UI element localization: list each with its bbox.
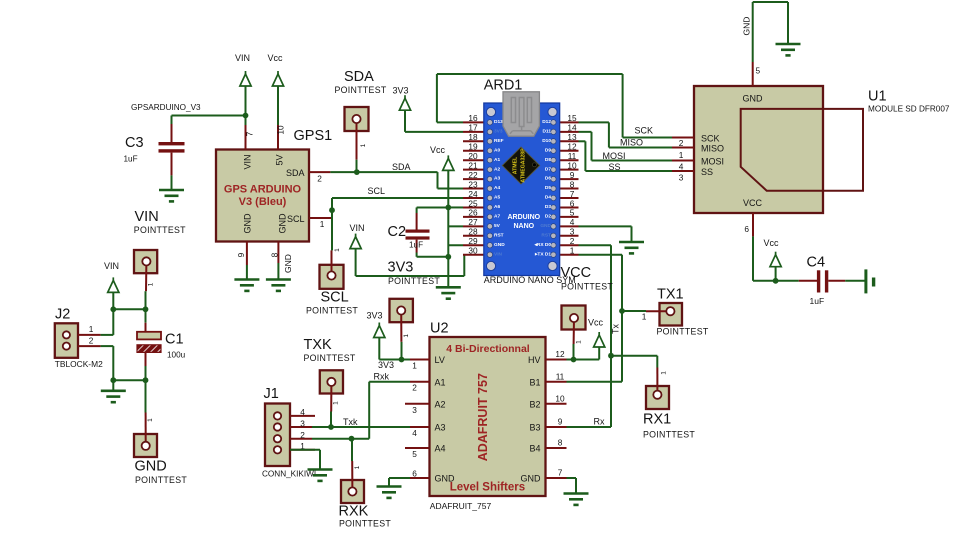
ground below C3 (159, 190, 184, 201)
ARD1 pin 12 stub (559, 150, 579, 152)
ground below GPS1 pin 8 (266, 280, 291, 291)
ARD1 pin 20 stub (463, 159, 485, 161)
ground below Vcc bus (436, 287, 461, 298)
svg-text:A1: A1 (435, 377, 446, 387)
svg-text:GND: GND (277, 213, 287, 234)
svg-text:GND: GND (135, 459, 167, 475)
svg-text:POINTTEST: POINTTEST (657, 327, 709, 337)
ARD1 pin 22 stub (463, 178, 485, 180)
svg-text:ARDUINO: ARDUINO (507, 214, 540, 221)
wire SDA pointtest to SDA net (356, 160, 358, 172)
svg-text:3V3: 3V3 (378, 360, 394, 370)
wire SCK vertical right (622, 74, 624, 138)
ground J1 pin 1 (308, 470, 333, 481)
svg-text:GPS1: GPS1 (294, 128, 333, 144)
wire net SDA to ARD1 pin 23 (438, 188, 464, 190)
ARD1 pin 10 stub (559, 169, 579, 171)
svg-text:1: 1 (320, 219, 325, 229)
svg-text:7: 7 (558, 468, 563, 478)
wire net SDA vertical (437, 172, 439, 188)
pointtest RXK (341, 480, 364, 503)
svg-text:POINTTEST: POINTTEST (134, 225, 186, 235)
ground J2 (101, 391, 126, 402)
U2 pin 6 stub (410, 477, 430, 479)
wire GPS1 pin9 to ground (246, 265, 248, 280)
U2 pin 8 stub (546, 447, 567, 449)
svg-text:VCC: VCC (561, 265, 592, 281)
junction VCC / HV (571, 357, 577, 363)
svg-text:4: 4 (570, 217, 575, 227)
pointtest VCC (562, 306, 586, 330)
J1 pin 4 (290, 415, 315, 417)
svg-text:11: 11 (568, 151, 577, 161)
wire net SCL horizontal (332, 197, 463, 199)
svg-text:◂RX D0: ◂RX D0 (533, 242, 551, 248)
svg-text:VIN: VIN (135, 209, 159, 225)
svg-text:U2: U2 (430, 321, 449, 337)
U1 pin MISO stub (672, 147, 694, 149)
svg-text:10: 10 (567, 160, 577, 170)
ARD1 pin 28 stub (463, 235, 485, 237)
U2 pin 2 stub (410, 381, 430, 383)
pointtest VIN (134, 250, 157, 273)
ARD1 pin 26 stub (463, 216, 485, 218)
U2 pin 4 stub (410, 426, 430, 428)
svg-text:3: 3 (570, 227, 575, 237)
junction 3V3 / LV (399, 357, 405, 363)
svg-text:4: 4 (412, 428, 417, 438)
svg-text:POINTTEST: POINTTEST (339, 519, 391, 529)
wire VCC to C4 (753, 280, 776, 282)
wire SS vertical (584, 141, 586, 171)
svg-text:MISO: MISO (701, 144, 724, 154)
svg-text:1uF: 1uF (124, 155, 138, 164)
ARD1 pin 17 stub (463, 131, 485, 133)
capacitor C4 (776, 280, 799, 282)
svg-text:Rxk: Rxk (374, 371, 390, 381)
svg-text:SCK: SCK (635, 126, 654, 136)
svg-text:LV: LV (435, 355, 445, 365)
svg-text:A6: A6 (494, 204, 500, 210)
SD module U1 (694, 86, 823, 213)
wire Rx vertical (610, 245, 612, 427)
svg-text:GPS ARDUINO: GPS ARDUINO (224, 184, 302, 196)
wire HV to Vcc arrow (567, 359, 600, 361)
wire U1 pin6 down (752, 236, 754, 280)
svg-text:ADAFRUIT 757: ADAFRUIT 757 (476, 373, 490, 461)
wire J2 pin2 (101, 345, 114, 347)
GPS1 pin 1 (SCL) (309, 217, 332, 219)
wire ARD1 pin 30 down to VIN net (463, 255, 465, 276)
svg-text:9: 9 (558, 417, 563, 427)
U2 pin 12 stub (546, 359, 567, 361)
U1 pin MOSI stub (672, 160, 694, 162)
svg-text:15: 15 (567, 113, 577, 123)
junction C2 bottom (445, 254, 451, 260)
wire J2 pin1 ext (101, 334, 114, 336)
svg-text:U1: U1 (868, 89, 887, 105)
svg-text:3V3: 3V3 (393, 86, 409, 96)
svg-text:6: 6 (412, 469, 417, 479)
svg-text:1uF: 1uF (810, 296, 825, 306)
wire Rx from ARD1 pin2 (579, 244, 612, 246)
ground bar (alt) right of C4 (864, 269, 867, 293)
svg-text:1: 1 (89, 324, 94, 334)
U2 pin 9 stub (546, 426, 567, 428)
svg-text:8: 8 (558, 438, 563, 448)
svg-text:GND: GND (283, 254, 293, 273)
svg-text:POINTTEST: POINTTEST (388, 276, 440, 286)
U2 pin 3 stub (405, 403, 430, 405)
svg-text:A5: A5 (494, 195, 500, 201)
svg-text:SDA: SDA (392, 162, 411, 172)
svg-text:A7: A7 (494, 214, 500, 220)
svg-text:14: 14 (567, 123, 577, 133)
wire U2 pin7 ground vertical (575, 478, 577, 494)
svg-text:30: 30 (468, 246, 478, 256)
ARD1 pin 9 stub (559, 178, 579, 180)
wire GND top vertical (787, 2, 789, 44)
capacitor C3 (171, 116, 173, 125)
wire Rxk to J1 pin2 (352, 438, 370, 440)
junction Txk / TXK (328, 424, 334, 430)
junction GPSARDUINO_V3 / VIN (243, 113, 249, 119)
svg-text:TBLOCK-M2: TBLOCK-M2 (55, 359, 103, 369)
U1 pin SS stub (672, 170, 694, 172)
wire GPS1 pin8 to ground (277, 263, 279, 280)
svg-text:4: 4 (300, 407, 305, 417)
wire 3V3 arrow vertical (404, 110, 406, 132)
ARD1 pin pads (487, 120, 492, 125)
pointtest SCL (320, 265, 344, 289)
wire Vcc arrow stem 2 (775, 267, 777, 281)
svg-text:TXK: TXK (304, 337, 333, 353)
U2 pin 5 stub (405, 447, 430, 449)
svg-text:POINTTEST: POINTTEST (304, 353, 356, 363)
svg-text:VIN: VIN (242, 154, 252, 169)
ARD1 ATMEL ATMEGA328P chip (502, 147, 539, 184)
wire 3V3 pointtest down (401, 342, 403, 360)
wire MISO to U1 (609, 147, 672, 149)
svg-text:SCL: SCL (368, 186, 386, 196)
ARD1 pin 15 stub (559, 121, 579, 123)
svg-text:VIN: VIN (104, 261, 119, 271)
svg-text:D5: D5 (545, 185, 551, 191)
svg-text:4: 4 (679, 162, 684, 172)
wire Vcc arrow to GPS1 pin10 (277, 86, 279, 125)
svg-text:A2: A2 (435, 399, 446, 409)
wire Txk to U2 A3 (331, 426, 410, 428)
svg-text:3V3: 3V3 (388, 260, 414, 276)
wire MISO vertical (608, 122, 610, 147)
GPS1 pin 8 (GND) (277, 242, 279, 264)
ground top right (776, 44, 801, 55)
wire net SDA horizontal (330, 171, 437, 173)
wire SCK to U1 (623, 137, 672, 139)
svg-text:J2: J2 (55, 307, 70, 323)
wire RX1 vertical (656, 356, 658, 368)
wire 3V3 to ARD1 pin 17 (405, 131, 463, 133)
svg-text:12: 12 (567, 142, 577, 152)
svg-text:POINTTEST: POINTTEST (561, 282, 613, 292)
wire J1 pin2 to Rxk (312, 438, 352, 440)
svg-text:D7: D7 (545, 166, 551, 172)
svg-text:POINTTEST: POINTTEST (643, 430, 695, 440)
J2 pin 1 (78, 334, 101, 336)
pointtest 3V3 (390, 299, 413, 322)
svg-text:POINTTEST: POINTTEST (135, 475, 187, 485)
wire net SCL vertical to pointtest (331, 198, 333, 250)
svg-text:Vcc: Vcc (764, 238, 780, 248)
svg-text:Tx: Tx (611, 324, 621, 334)
wire ARD1 pin4 ground vertical (631, 226, 633, 242)
svg-text:POINTTEST: POINTTEST (335, 85, 387, 95)
ARD1 pin 13 stub (559, 140, 579, 142)
svg-text:Vcc: Vcc (430, 145, 446, 155)
svg-text:GND: GND (742, 17, 752, 36)
wire U2 pin7 to ground (567, 477, 577, 479)
wire net GPSARDUINO_V3 (172, 115, 246, 117)
svg-text:3: 3 (412, 405, 417, 415)
junction VIN / C1 (143, 306, 149, 312)
svg-text:9: 9 (570, 170, 575, 180)
svg-text:MOSI: MOSI (701, 157, 724, 167)
GPS1 pin 10 (5V) (277, 125, 279, 150)
svg-text:RX1: RX1 (643, 412, 671, 428)
power arrow VIN (GPS1 pin 7) (240, 71, 251, 86)
pointtest SDA (345, 107, 369, 131)
pointtest TXK (320, 370, 343, 393)
ARD1 mini-USB connector (503, 92, 539, 136)
junction C2 top / ARD1 pin 25 (445, 205, 451, 211)
power arrow Vcc (U2 HV) (594, 332, 605, 347)
wire U1 pin5 up (752, 2, 754, 62)
wire Tx from ARD1 pin1 (579, 254, 623, 256)
ARD1 mounting holes (486, 107, 495, 116)
svg-text:1: 1 (334, 248, 341, 252)
svg-text:13: 13 (567, 132, 577, 142)
svg-text:3V3: 3V3 (367, 311, 383, 321)
svg-text:Rx: Rx (594, 417, 605, 427)
junction SDA net (354, 169, 360, 175)
wire MOSI vertical (591, 132, 593, 161)
ARD1 pin 24 stub (463, 197, 485, 199)
capacitor C1 (electrolytic) (145, 309, 147, 322)
ARD1 pin 4 stub (559, 225, 579, 227)
junction Rx / RX1 (608, 353, 614, 359)
level shifter U2 (430, 337, 546, 496)
wire VIN pointtest down (145, 291, 147, 309)
svg-text:D6: D6 (545, 176, 551, 182)
svg-text:1: 1 (412, 361, 417, 371)
svg-text:Txk: Txk (343, 417, 358, 427)
wire VIN arrow to J2 pin1 (112, 292, 114, 335)
pointtest TX1 (660, 303, 683, 326)
wire J1 pin1 to ground (290, 449, 320, 451)
power arrow Vcc (ARD1) (443, 155, 454, 170)
wire U2 pin6 ground vertical (388, 478, 390, 487)
svg-text:GND: GND (242, 213, 252, 234)
U1 pin SCK stub (672, 137, 694, 139)
svg-text:1: 1 (661, 371, 668, 375)
svg-text:2: 2 (317, 174, 322, 184)
svg-text:B2: B2 (529, 399, 540, 409)
svg-text:2: 2 (679, 138, 684, 148)
svg-text:Vcc: Vcc (268, 53, 284, 63)
svg-text:1: 1 (147, 418, 154, 422)
svg-text:SDA: SDA (344, 69, 374, 85)
ground U2 pin 7 (564, 494, 589, 505)
svg-text:2: 2 (300, 430, 305, 440)
svg-text:▸TX D1: ▸TX D1 (534, 251, 551, 257)
svg-text:7: 7 (570, 189, 575, 199)
ground below GPS1 pin 9 (234, 280, 259, 291)
wire Rx to RX1 (611, 355, 657, 357)
svg-text:1uF: 1uF (409, 241, 423, 250)
ARD1 pin 7 stub (559, 197, 579, 199)
svg-text:NANO: NANO (513, 223, 534, 230)
wire TXK pointtest down (330, 412, 332, 428)
svg-text:5V: 5V (274, 154, 284, 165)
GPS1 pin 7 (VIN) (245, 125, 247, 150)
svg-text:Level Shifters: Level Shifters (450, 482, 525, 494)
svg-text:A3: A3 (494, 176, 500, 182)
svg-text:3: 3 (679, 173, 684, 183)
svg-text:1: 1 (354, 465, 361, 469)
svg-text:ATMEL: ATMEL (513, 156, 519, 174)
svg-text:B4: B4 (529, 444, 540, 454)
svg-text:D4: D4 (545, 195, 551, 201)
ground U2 pin 6 (377, 487, 402, 498)
svg-text:B1: B1 (529, 377, 540, 387)
svg-text:SCK: SCK (701, 134, 720, 144)
svg-text:C2: C2 (388, 224, 407, 240)
svg-text:10: 10 (276, 125, 286, 135)
svg-text:MODULE SD DFR007: MODULE SD DFR007 (868, 105, 950, 114)
wire ARD1 pin4 to ground (579, 225, 632, 227)
svg-text:5: 5 (756, 66, 761, 76)
svg-text:7: 7 (245, 131, 255, 136)
junction C1 bottom (143, 377, 149, 383)
U2 pin 10 stub (546, 403, 567, 405)
svg-text:VCC: VCC (743, 198, 763, 208)
svg-text:SS: SS (701, 167, 713, 177)
junction Rxk / RXK (349, 436, 355, 442)
wire VIN to C1 top (113, 308, 145, 310)
wire C4 to ground bar (845, 280, 865, 282)
svg-text:12: 12 (555, 349, 565, 359)
ARD1 pin 30 stub (463, 254, 485, 256)
svg-text:10: 10 (555, 394, 565, 404)
wire SCK from ARD1 pin16 (437, 121, 463, 123)
svg-text:GND: GND (494, 242, 505, 248)
svg-text:TX1: TX1 (657, 286, 684, 302)
junction GND net left (110, 377, 116, 383)
ARD1 pin 8 stub (559, 188, 579, 190)
junction Vcc / C4 (773, 278, 779, 284)
svg-text:Vcc: Vcc (588, 318, 604, 328)
J1 pin 3 (290, 426, 312, 428)
wire SCK vertical left (436, 74, 438, 122)
svg-text:HV: HV (528, 355, 541, 365)
U2 pin 11 stub (546, 381, 567, 383)
ARD1 board body (484, 103, 560, 276)
GPS module GPS1 (216, 150, 309, 242)
wire VIN net horizontal (356, 275, 465, 277)
wire SS to U1 (585, 170, 672, 172)
svg-text:9: 9 (236, 252, 246, 257)
svg-text:5: 5 (570, 208, 575, 218)
ARD1 pin 16 stub (463, 121, 485, 123)
wire VIN arrow to GPS1 pin7 (245, 86, 247, 125)
U1 pin 6 (VCC) (752, 213, 754, 236)
svg-text:VIN: VIN (235, 53, 250, 63)
svg-text:A4: A4 (494, 185, 500, 191)
junction Tx / TX1 (619, 308, 625, 314)
power arrow VIN (J2) (108, 277, 119, 292)
junction SCL net (329, 207, 335, 213)
wire SCK over ARD1 (437, 73, 623, 75)
svg-text:SDA: SDA (286, 168, 305, 178)
svg-text:D3: D3 (545, 204, 551, 210)
svg-text:A0: A0 (494, 147, 500, 153)
wire Tx to U2 B1 (567, 381, 623, 383)
svg-text:3V3: 3V3 (494, 128, 503, 134)
wire 3V3 arrow stem (378, 338, 380, 360)
ARD1 pin 3 stub (559, 235, 579, 237)
ARD1 pin 18 stub (463, 140, 485, 142)
svg-text:8: 8 (570, 179, 575, 189)
svg-text:1: 1 (570, 246, 575, 256)
ARD1 pin 11 stub (559, 159, 579, 161)
wire to GND pointtest (145, 380, 147, 412)
svg-text:6: 6 (744, 224, 749, 234)
svg-text:RST: RST (541, 232, 551, 238)
svg-text:2: 2 (89, 335, 94, 345)
ARD1 pin 5 stub (559, 216, 579, 218)
pointtest RX1 (646, 386, 669, 409)
svg-text:B3: B3 (529, 423, 540, 433)
svg-text:C1: C1 (165, 332, 184, 348)
power arrow VIN (mid) (350, 234, 361, 249)
wire J2 pin2 down to ground (112, 346, 114, 391)
svg-text:D2: D2 (545, 214, 551, 220)
wire MOSI from ARD1 pin14 (579, 131, 592, 133)
svg-text:VIN: VIN (494, 251, 503, 257)
svg-text:VIN: VIN (350, 223, 365, 233)
svg-text:ATMEGA328P: ATMEGA328P (521, 148, 527, 183)
svg-text:1: 1 (333, 401, 340, 405)
wire GND top horizontal (753, 1, 788, 3)
svg-text:3: 3 (300, 418, 305, 428)
wire to ARD1 pin 27 (448, 225, 463, 227)
wire J1 pin3 to Txk (312, 426, 331, 428)
pointtest GND (134, 434, 157, 457)
power arrow Vcc (U1) (770, 252, 781, 267)
svg-text:D12: D12 (542, 119, 551, 125)
svg-text:2: 2 (412, 383, 417, 393)
U1 SD card outline (741, 109, 863, 191)
ARD1 pin 29 stub (463, 244, 485, 246)
svg-text:GND: GND (521, 474, 542, 484)
J1 pin 1 (290, 449, 315, 451)
svg-text:V3 (Bleu): V3 (Bleu) (239, 196, 287, 208)
svg-text:SCL: SCL (287, 214, 305, 224)
GPS1 pin 2 (SDA) (309, 171, 330, 173)
wire VIN arrow down (355, 249, 357, 276)
svg-text:100u: 100u (167, 351, 186, 360)
svg-text:RST: RST (494, 232, 504, 238)
